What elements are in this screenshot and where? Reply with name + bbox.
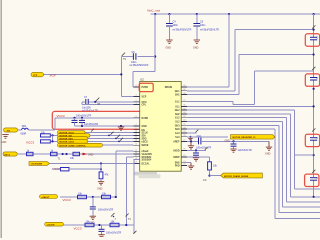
port MOTOR_DRV_SENSE_IO	[231, 135, 276, 139]
ground far left	[1, 135, 9, 144]
sheet border left	[0, 0, 2, 238]
capacitor C12	[193, 150, 199, 157]
wire VM drop to C6/PVDD	[133, 14, 155, 87]
svg-text:GND: GND	[265, 153, 271, 156]
svg-text:GL2: GL2	[175, 118, 180, 120]
wire dccal row	[50, 163, 134, 165]
svg-text:EN_G: EN_G	[5, 154, 11, 156]
svg-text:GH3: GH3	[175, 125, 180, 127]
highlight box PVDD pin	[139, 83, 153, 91]
wire GH2 down	[187, 110, 320, 189]
svg-text:SL1: SL1	[175, 106, 180, 108]
svg-text:100n/16V/LTR: 100n/16V/LTR	[76, 114, 92, 117]
svg-text:ref.95uF/50V/LTR: ref.95uF/50V/LTR	[173, 29, 192, 32]
svg-text:100n: 100n	[200, 24, 206, 27]
port MOTOR_PHASE_SENSE	[221, 173, 263, 178]
wire SL3 to label	[187, 136, 228, 138]
ground for C5	[193, 40, 200, 50]
ferrite bead FB1	[21, 125, 29, 135]
component sym3	[73, 152, 80, 155]
capacitor C11	[231, 140, 252, 152]
svg-text:GND: GND	[166, 47, 172, 50]
resistor R8 pulldown	[99, 164, 109, 182]
svg-text:VCC3: VCC3	[57, 114, 65, 118]
resistor R4	[41, 132, 58, 137]
capacitor C5	[193, 14, 219, 39]
ticks on cluster wires	[91, 129, 94, 132]
port SDI	[58, 134, 91, 138]
svg-text:C: C	[316, 137, 318, 140]
svg-text:GND: GND	[1, 141, 7, 144]
svg-text:VCC3: VCC3	[26, 140, 34, 144]
svg-text:VCP: VCP	[33, 75, 38, 77]
svg-text:SDO: SDO	[142, 138, 147, 140]
power arrow PGND	[83, 153, 88, 156]
capacitor C9	[79, 118, 98, 126]
capacitor C18 bootstrap4	[310, 177, 318, 180]
wire GL1 rail	[187, 71, 313, 105]
node DVDD junctions	[73, 117, 75, 119]
wire VM bus	[151, 13, 320, 15]
port nOCTW	[45, 222, 64, 226]
wire SL1 rail	[187, 105, 313, 107]
port DRV_EN	[3, 152, 17, 156]
svg-text:C10: C10	[197, 135, 202, 138]
port nSCS	[58, 140, 88, 144]
svg-text:C: C	[316, 37, 318, 40]
svg-text:SCLK: SCLK	[142, 132, 149, 134]
svg-text:GL1: GL1	[175, 102, 180, 104]
svg-text:SNS: SNS	[175, 163, 180, 165]
svg-text:SO1/SO2: SO1/SO2	[142, 157, 153, 159]
svg-text:AREF: AREF	[173, 140, 180, 143]
node VCP junction	[120, 73, 122, 75]
svg-text:ref.95uF/50V/LTR: ref.95uF/50V/LTR	[130, 64, 149, 67]
svg-text:VCP: VCP	[50, 74, 56, 78]
svg-text:GH2: GH2	[175, 110, 180, 112]
gray blob part number	[134, 172, 157, 176]
svg-text:SL2: SL2	[175, 122, 180, 124]
highlight box C17	[305, 134, 319, 146]
port VCP pill	[31, 72, 44, 76]
node CPH junction	[94, 101, 96, 103]
svg-text:MOTOR_REGISTER_IO: MOTOR_REGISTER_IO	[233, 137, 256, 139]
wire GND return	[75, 125, 140, 127]
svg-text:100n/16V/LTR: 100n/16V/LTR	[106, 231, 122, 234]
svg-text:VGA/VDS: VGA/VDS	[142, 153, 153, 156]
svg-text:C: C	[316, 77, 318, 80]
pin names	[142, 86, 181, 167]
svg-text:GND: GND	[193, 47, 199, 50]
svg-text:DRAIN: DRAIN	[165, 86, 173, 89]
svg-text:GL3: GL3	[175, 133, 180, 135]
wire VCC3 feed	[18, 118, 140, 130]
svg-text:nSCS/GAIN: nSCS/GAIN	[31, 163, 43, 166]
wire GL3 stub	[187, 132, 196, 134]
ground for C4	[166, 40, 173, 50]
ground C11	[230, 149, 236, 152]
svg-text:PAD: PAD	[175, 164, 180, 167]
resistor R5	[41, 140, 58, 143]
wire GH3 down	[187, 125, 320, 212]
capacitor C14	[99, 225, 122, 234]
wire SH1 rail	[187, 55, 313, 95]
capacitor C6	[121, 51, 155, 67]
svg-text:GND: GND	[225, 140, 231, 143]
capacitor C15 bootstrap1	[310, 37, 318, 40]
ground DVDD	[118, 126, 124, 130]
ground AREF right	[265, 141, 272, 155]
port nFAULT	[40, 195, 58, 199]
highlight box DVDD decoupling	[52, 111, 156, 129]
wire SH2 down	[187, 114, 320, 197]
svg-text:SH3: SH3	[175, 129, 180, 131]
svg-text:WAKE: WAKE	[142, 144, 149, 147]
svg-text:MOTOR_SOME_CONTROL: MOTOR_SOME_CONTROL	[60, 145, 87, 147]
svg-text:SDI: SDI	[142, 135, 146, 137]
pin numbers	[135, 85, 187, 165]
capacitor C10	[196, 135, 269, 150]
node bus junctions	[313, 29, 315, 31]
wire VCP net	[44, 57, 140, 97]
ground mini on SL3	[188, 136, 192, 141]
capacitor C7 charge pump	[82, 96, 140, 113]
wire SL2 down	[187, 122, 320, 207]
ground C12	[193, 158, 199, 161]
wire mid rail	[295, 154, 314, 156]
svg-text:nOCTW: nOCTW	[47, 224, 55, 226]
svg-text:CPH: CPH	[142, 102, 147, 104]
svg-text:VinC_mot: VinC_mot	[147, 8, 160, 12]
svg-text:1uF/16V/LTR: 1uF/16V/LTR	[84, 123, 98, 126]
ground C14	[98, 235, 104, 237]
port MOTOR nSCS long	[29, 162, 50, 166]
capacitor C17 bootstrap3	[310, 137, 318, 140]
tick at CPH	[96, 98, 99, 101]
IC U2 gate driver	[140, 78, 182, 172]
svg-text:SL3: SL3	[175, 137, 180, 139]
svg-text:nFAULT: nFAULT	[42, 196, 51, 199]
svg-text:DCCAL: DCCAL	[142, 162, 151, 165]
port 3V3 pill	[4, 128, 18, 132]
highlight box C16	[305, 74, 319, 86]
highlight box C15	[305, 34, 319, 46]
svg-text:100n/16V/LTR: 100n/16V/LTR	[98, 209, 114, 212]
svg-text:C: C	[316, 177, 318, 180]
wire SH3 down	[187, 129, 320, 219]
wire CPL return	[82, 102, 140, 105]
svg-text:SH2: SH2	[175, 114, 180, 116]
wire GH1 rail	[187, 30, 313, 91]
capacitor C13	[90, 197, 114, 216]
tick at C6 corner	[122, 53, 125, 56]
port EN_GATE	[58, 143, 103, 147]
svg-text:GND: GND	[88, 153, 94, 156]
ground AREF	[188, 141, 194, 149]
port SDO	[58, 137, 88, 141]
node on VM drop	[154, 55, 156, 57]
svg-text:CPL: CPL	[142, 105, 147, 107]
svg-text:100n/16V/LTR: 100n/16V/LTR	[196, 147, 212, 150]
ground SNS	[188, 163, 194, 170]
wire SNSP with divider	[187, 157, 209, 162]
svg-text:SNSP: SNSP	[173, 157, 180, 159]
svg-text:VCC3: VCC3	[63, 198, 71, 202]
node VM junctions	[154, 13, 156, 15]
capacitor C16 bootstrap2	[310, 77, 318, 80]
wire pin159 down	[133, 160, 135, 234]
resistor R9	[208, 162, 218, 176]
svg-text:PVDD: PVDD	[142, 87, 149, 89]
ground C13	[89, 216, 96, 224]
wire pin154 down	[116, 151, 134, 197]
svg-text:100n: 100n	[173, 24, 179, 27]
svg-text:1uF/16V/LTR: 1uF/16V/LTR	[238, 149, 252, 152]
svg-text:nSCS: nSCS	[142, 141, 149, 143]
wire EN row	[17, 153, 133, 155]
wire GL2 down	[187, 118, 320, 202]
highlight box C18	[305, 174, 319, 186]
pin stubs right	[181, 87, 187, 165]
wire SNS	[187, 162, 191, 164]
svg-text:AVDD: AVDD	[173, 149, 180, 152]
wire to phase sense label	[210, 175, 221, 177]
svg-text:600R: 600R	[21, 133, 27, 136]
svg-text:GH1: GH1	[175, 91, 180, 93]
port SCLK	[58, 131, 86, 135]
capacitor C8	[72, 114, 92, 126]
wire AVDD	[187, 149, 206, 151]
capacitor C4	[166, 14, 192, 39]
svg-text:FB1: FB1	[22, 125, 27, 128]
svg-text:GND: GND	[142, 126, 147, 128]
pin stubs left	[134, 87, 140, 164]
svg-text:MOTOR_PHASE_SENSE: MOTOR_PHASE_SENSE	[224, 175, 249, 178]
transistor Q1	[111, 213, 115, 217]
vertical cap bus right	[313, 14, 315, 197]
svg-text:VCC3: VCC3	[74, 227, 82, 231]
wire AREF	[187, 140, 198, 142]
wire DRAIN to VM	[187, 14, 229, 87]
wire pullup row	[52, 168, 61, 170]
svg-text:nFault: nFault	[142, 150, 149, 153]
wire pin156.8 down	[126, 157, 139, 225]
svg-text:VCP: VCP	[142, 97, 147, 99]
svg-text:SO3/SO4: SO3/SO4	[142, 159, 153, 162]
svg-text:DVDD: DVDD	[142, 118, 149, 120]
svg-text:SH1: SH1	[175, 95, 180, 97]
svg-text:GND: GND	[97, 188, 103, 191]
svg-text:ref.95uF/50V/LTR: ref.95uF/50V/LTR	[200, 29, 219, 32]
ground R8	[97, 182, 104, 191]
